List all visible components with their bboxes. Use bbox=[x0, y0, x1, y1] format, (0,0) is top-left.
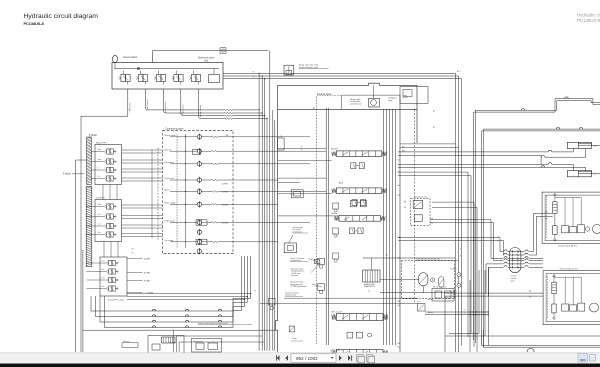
svg-text:992 / 1002: 992 / 1002 bbox=[296, 356, 318, 361]
ls select valves bbox=[333, 203, 339, 209]
travel PPC output line bbox=[127, 280, 143, 282]
upper service valve bbox=[351, 200, 357, 206]
svg-text:LS reducing valve: LS reducing valve bbox=[433, 285, 446, 288]
travel motor RH valves bbox=[562, 226, 569, 233]
svg-text:Rev: Rev bbox=[102, 286, 105, 288]
previous page button bbox=[285, 355, 288, 360]
bucket cylinder bbox=[567, 142, 591, 148]
svg-text:T3: T3 bbox=[368, 291, 370, 293]
svg-text:Ar: Ar bbox=[594, 173, 596, 176]
svg-text:T5: T5 bbox=[254, 291, 256, 293]
left PPC valve section 2 bbox=[107, 214, 110, 219]
solenoid output line 2 bbox=[145, 89, 148, 110]
svg-text:37.2MPa (standard): 37.2MPa (standard) bbox=[290, 285, 306, 288]
svg-text:priority: priority bbox=[403, 96, 408, 99]
swing section port lines bbox=[432, 201, 474, 203]
toolbar background bbox=[0, 353, 600, 365]
boom PPC valve section 3 bbox=[107, 167, 110, 172]
svg-text:Travel motor (L.H.): Travel motor (L.H.) bbox=[559, 268, 578, 271]
pump drive shaft bbox=[380, 278, 419, 280]
last page button bbox=[348, 355, 351, 360]
travel PPC valve section 1 bbox=[109, 260, 112, 265]
svg-text:Lower: Lower bbox=[97, 159, 102, 161]
hose lines to center bundle bbox=[148, 109, 224, 111]
connecting valve box bbox=[163, 130, 233, 253]
accumulator bbox=[112, 55, 117, 62]
left PPC valve box bbox=[95, 200, 122, 242]
bucket cylinder lines bbox=[398, 151, 548, 153]
swing stop valve bbox=[284, 65, 294, 75]
svg-text:Arm: Arm bbox=[339, 181, 343, 184]
svg-text:valve: valve bbox=[388, 100, 392, 102]
connecting valve output rows to control valve bbox=[233, 136, 278, 138]
unload valve symbols bbox=[318, 258, 325, 265]
svg-text:Mode merge: Mode merge bbox=[165, 202, 176, 205]
svg-text:Fwd: Fwd bbox=[102, 260, 105, 262]
svg-text:Bu: Bu bbox=[594, 145, 596, 147]
svg-text:To PB1: To PB1 bbox=[222, 223, 229, 225]
svg-text:To PB4: To PB4 bbox=[222, 205, 229, 207]
solenoid valve SOL1 bbox=[121, 75, 126, 82]
svg-text:In: In bbox=[97, 167, 98, 169]
connecting valve sub spool 3 bbox=[196, 239, 207, 244]
oil filter box bbox=[192, 339, 222, 353]
RH motor feed risers bbox=[533, 213, 535, 251]
svg-text:Right swing: Right swing bbox=[165, 220, 175, 223]
svg-text:B2: B2 bbox=[433, 127, 435, 129]
travel motor RH outer box bbox=[542, 192, 600, 243]
control valve main gallery bbox=[383, 109, 385, 345]
pump pressure sensor block bbox=[284, 243, 296, 253]
pressure sensor bottom bbox=[457, 283, 461, 287]
left PPC valve section 4 bbox=[107, 232, 110, 237]
svg-text:A3: A3 bbox=[398, 184, 400, 187]
boom PPC valve section 1 bbox=[107, 149, 110, 154]
center pilot bus bundle bbox=[258, 73, 260, 350]
pressure switch on pilot line bbox=[220, 48, 226, 53]
main pump symbol bbox=[419, 273, 428, 286]
svg-text:Bucket mode: Bucket mode bbox=[165, 134, 176, 137]
inlet port lines bbox=[278, 148, 327, 150]
right bus risers bbox=[467, 172, 469, 337]
spool bridge lines bbox=[278, 160, 332, 162]
travel junction cluster box bbox=[432, 289, 454, 302]
svg-text:Hydraulic cir: Hydraulic cir bbox=[577, 13, 600, 18]
svg-text:A2: A2 bbox=[313, 107, 315, 110]
svg-text:To PB2: To PB2 bbox=[144, 273, 152, 275]
merge-divider valve bbox=[369, 98, 380, 107]
arm cylinder lines bbox=[398, 163, 548, 165]
travel PPC output line bbox=[127, 258, 143, 260]
taskbar strip bbox=[0, 364, 600, 367]
travel junction valve bbox=[418, 304, 426, 312]
oil cooler core bbox=[162, 337, 176, 343]
connecting valve sub spool 1 bbox=[193, 149, 201, 154]
svg-text:P1: P1 bbox=[301, 147, 303, 149]
svg-text:T: T bbox=[460, 249, 461, 251]
svg-text:joint: joint bbox=[510, 280, 515, 283]
svg-text:To PB1: To PB1 bbox=[144, 281, 152, 283]
left PPC valve section 1 bbox=[107, 204, 110, 209]
bypass valve bbox=[152, 344, 160, 350]
junction dots on connecting valve stem bbox=[185, 136, 186, 137]
boom spool pilots bbox=[349, 228, 354, 234]
pilot bus lines bbox=[223, 72, 456, 74]
svg-text:Travel PPC valve: Travel PPC valve bbox=[108, 299, 126, 302]
svg-text:P3: P3 bbox=[132, 249, 134, 251]
window control icon 2 bbox=[590, 355, 596, 362]
page number box bbox=[291, 354, 336, 362]
svg-text:B3: B3 bbox=[398, 305, 400, 307]
control valve label stem bbox=[316, 97, 318, 345]
svg-text:Oil cooler: Oil cooler bbox=[169, 342, 177, 344]
svg-text:Raise: Raise bbox=[97, 149, 101, 151]
travel PPC output line bbox=[127, 292, 143, 294]
solenoid valve SOL2 bbox=[138, 75, 143, 82]
svg-text:Strainer: Strainer bbox=[123, 340, 130, 343]
svg-text:Swing lock valve: Swing lock valve bbox=[414, 197, 427, 199]
tank lines to cooler bbox=[173, 330, 175, 352]
svg-text:P2: P2 bbox=[253, 77, 255, 79]
svg-text:P block: P block bbox=[89, 134, 98, 137]
travel PPC valve section 3 bbox=[109, 277, 112, 282]
swing section box bbox=[410, 199, 430, 226]
svg-text:unit: unit bbox=[204, 59, 208, 62]
svg-text:Merge divider: Merge divider bbox=[200, 105, 202, 117]
svg-text:to driven: to driven bbox=[291, 274, 298, 277]
left PPC output lines bbox=[122, 204, 163, 206]
svg-text:Connecting valve: Connecting valve bbox=[165, 127, 184, 130]
center swivel joint bbox=[509, 248, 521, 273]
travel PPC output line bbox=[127, 272, 143, 274]
travel PPC long output lines bbox=[127, 293, 251, 295]
left PPC valve section 3 bbox=[107, 223, 110, 228]
travel motor RH internal lines bbox=[555, 197, 581, 199]
solenoid valve SOL4 bbox=[174, 75, 179, 82]
svg-text:Bucket: Bucket bbox=[331, 148, 338, 151]
svg-text:Accumulator: Accumulator bbox=[123, 55, 138, 59]
bundle check component bbox=[269, 299, 276, 306]
leader lines bbox=[308, 259, 318, 262]
solenoid unit end block bbox=[209, 75, 220, 83]
travel motor LH counterbalance valve bbox=[552, 282, 556, 294]
svg-text:C1: C1 bbox=[464, 310, 466, 312]
boom PPC valve section 2 bbox=[107, 159, 110, 164]
svg-text:PA0: PA0 bbox=[226, 134, 229, 137]
svg-text:PA4: PA4 bbox=[398, 342, 401, 345]
travel motor RH motor symbol bbox=[593, 225, 600, 234]
travel motor RH counterbalance valve bbox=[553, 202, 557, 214]
self pressure reducing valve box bbox=[401, 261, 454, 299]
pump line to travel junction bbox=[284, 297, 418, 299]
svg-text:Control valve: Control valve bbox=[317, 93, 332, 96]
travel motor LH motor symbol bbox=[590, 303, 599, 312]
solenoid output line 1 to PPC supply bbox=[81, 89, 128, 116]
oil filter elements bbox=[196, 343, 204, 349]
svg-text:Safety valve: Safety valve bbox=[193, 340, 202, 343]
swivel joint lower feeds bbox=[485, 264, 487, 293]
svg-text:Boom: Boom bbox=[331, 213, 337, 215]
svg-text:Dump: Dump bbox=[97, 204, 101, 206]
solenoid valve unit box bbox=[112, 63, 223, 90]
port A block bbox=[314, 259, 319, 263]
boom PPC valve box bbox=[95, 145, 122, 185]
RH travel pilots bbox=[347, 332, 353, 338]
svg-text:Boom raise: Boom raise bbox=[165, 161, 175, 164]
connecting valve sub spool 2 bbox=[196, 220, 207, 225]
svg-text:PA1: PA1 bbox=[402, 146, 405, 149]
svg-text:Travel motor (R.H.): Travel motor (R.H.) bbox=[558, 245, 577, 248]
control valve inner frame bbox=[325, 108, 327, 345]
window control icon 1 bbox=[578, 354, 588, 363]
svg-text:To PB1: To PB1 bbox=[222, 184, 229, 186]
svg-text:P4: P4 bbox=[132, 253, 134, 255]
svg-text:Swing brake: Swing brake bbox=[165, 101, 167, 113]
svg-text:1.03MPa: 1.03MPa bbox=[450, 268, 457, 270]
travel motor LH internal lines bbox=[554, 276, 581, 278]
svg-text:PB4: PB4 bbox=[398, 347, 401, 349]
suction valve symbol bbox=[289, 326, 294, 332]
svg-text:Center: Center bbox=[511, 274, 517, 277]
next page button bbox=[339, 355, 342, 360]
svg-text:P1: P1 bbox=[253, 71, 255, 73]
left return riser pair bbox=[80, 116, 82, 352]
cooler feed from bundle bbox=[176, 335, 262, 337]
svg-text:Bucket curl: Bucket curl bbox=[165, 177, 175, 180]
pilot bus risers right bbox=[455, 73, 457, 352]
solenoid valve SOL3 bbox=[156, 75, 161, 82]
PPC feed risers bbox=[157, 148, 159, 240]
svg-text:Left PPC: Left PPC bbox=[96, 197, 105, 200]
arm spool output lines bbox=[398, 171, 468, 173]
svg-text:PC138US-8: PC138US-8 bbox=[24, 22, 44, 26]
svg-text:SAA4D95LE: SAA4D95LE bbox=[364, 285, 375, 288]
svg-text:Arm in4: Arm in4 bbox=[165, 148, 172, 151]
boom PPC valve section 4 bbox=[107, 176, 110, 181]
svg-text:Fwd: Fwd bbox=[102, 277, 105, 279]
PPC interbox links bbox=[102, 185, 104, 200]
svg-text:junction valve: junction valve bbox=[291, 339, 303, 342]
bucket spool pilots bbox=[351, 163, 356, 169]
svg-text:PC138US-8: PC138US-8 bbox=[577, 18, 600, 23]
bottom right riser bundle bbox=[469, 280, 471, 352]
tank line to control valve bbox=[83, 329, 276, 331]
boom cylinder pipe pair A bbox=[474, 99, 600, 340]
svg-text:PA3: PA3 bbox=[398, 300, 401, 303]
solenoid output line 4 bbox=[181, 89, 184, 116]
svg-text:Rev: Rev bbox=[102, 269, 105, 271]
svg-text:(on demand): (on demand) bbox=[350, 103, 361, 105]
solenoid unit check symbol bbox=[137, 67, 140, 70]
solenoid output line 5 bbox=[198, 89, 201, 119]
suction bottom line bbox=[91, 295, 105, 297]
swing priority block bbox=[400, 87, 428, 104]
svg-text:Arm in: Arm in bbox=[165, 189, 170, 192]
bottom pair to tank bbox=[482, 330, 600, 345]
travel crossover lines bbox=[425, 311, 489, 313]
travel motor LH valves bbox=[562, 304, 569, 311]
svg-text:detection port: detection port bbox=[285, 294, 296, 297]
svg-text:F block: F block bbox=[63, 173, 72, 176]
svg-text:T1: T1 bbox=[301, 150, 303, 152]
svg-text:PPC lock: PPC lock bbox=[130, 103, 132, 111]
toolbar tool icon 2 bbox=[367, 355, 374, 362]
svg-text:B2: B2 bbox=[398, 172, 400, 174]
first page button bbox=[277, 355, 280, 360]
svg-text:To PB3: To PB3 bbox=[144, 259, 152, 261]
pilot line from solenoid unit to bus bbox=[153, 51, 269, 63]
svg-text:Asens: Asens bbox=[428, 311, 433, 314]
control valve inlet component bbox=[278, 138, 285, 150]
F block hatched manifold bbox=[86, 187, 92, 267]
pilot pump bbox=[431, 278, 435, 282]
pump suction line bbox=[363, 257, 455, 259]
pressure sensor top bbox=[457, 273, 461, 277]
LS select valve bbox=[291, 190, 303, 198]
swing output feeds to swivel bbox=[490, 220, 492, 259]
control valve section line bbox=[413, 109, 415, 303]
toolbar tool icon 1 bbox=[357, 355, 364, 362]
svg-text:PB1: PB1 bbox=[402, 151, 405, 153]
svg-text:C2: C2 bbox=[464, 313, 466, 315]
engine bbox=[363, 270, 380, 282]
arm cylinder bbox=[567, 171, 591, 177]
solenoid unit internal rail bbox=[114, 68, 219, 70]
solenoid output line 3 bbox=[163, 89, 166, 113]
svg-text:Left swing: Left swing bbox=[165, 239, 174, 242]
swing motor spool bbox=[413, 201, 423, 209]
travel motor LH outer box bbox=[543, 271, 600, 325]
svg-text:To PB3: To PB3 bbox=[222, 192, 229, 194]
travel PPC valve section 2 bbox=[109, 269, 112, 274]
svg-text:A2: A2 bbox=[433, 110, 435, 113]
travel PPC valve section 4 bbox=[109, 286, 112, 291]
arm spool pilots bbox=[352, 200, 357, 206]
solenoid valve SOL5 bbox=[191, 75, 196, 82]
svg-text:Travel speed: Travel speed bbox=[147, 100, 149, 112]
travel lower feeds bbox=[445, 336, 600, 352]
connecting valve internal stem bbox=[185, 134, 187, 248]
RH travel output lines bbox=[398, 237, 500, 239]
svg-text:A1: A1 bbox=[398, 159, 400, 162]
travel PPC valve box bbox=[100, 257, 127, 296]
svg-text:Boom PPC: Boom PPC bbox=[96, 143, 107, 145]
swivel joint to LH motor lines bbox=[489, 292, 544, 294]
boom PPC output lines bbox=[122, 149, 163, 151]
relief valve capsule bbox=[439, 277, 444, 288]
return staircase lines bbox=[90, 296, 92, 311]
svg-text:Hydraulic circuit diagram: Hydraulic circuit diagram bbox=[24, 13, 99, 20]
svg-text:R.H. travel: R.H. travel bbox=[331, 310, 342, 313]
bottom arc bbox=[527, 348, 534, 352]
control valve outer boundary bbox=[276, 83, 418, 352]
svg-text:PB2: PB2 bbox=[398, 195, 401, 197]
svg-text:Travel junct: Travel junct bbox=[182, 104, 185, 115]
P block hatched manifold bbox=[87, 137, 92, 185]
boom cylinder pipe pair B bbox=[482, 131, 600, 346]
control valve supply header bbox=[278, 108, 417, 110]
oil cooler box bbox=[148, 336, 184, 354]
